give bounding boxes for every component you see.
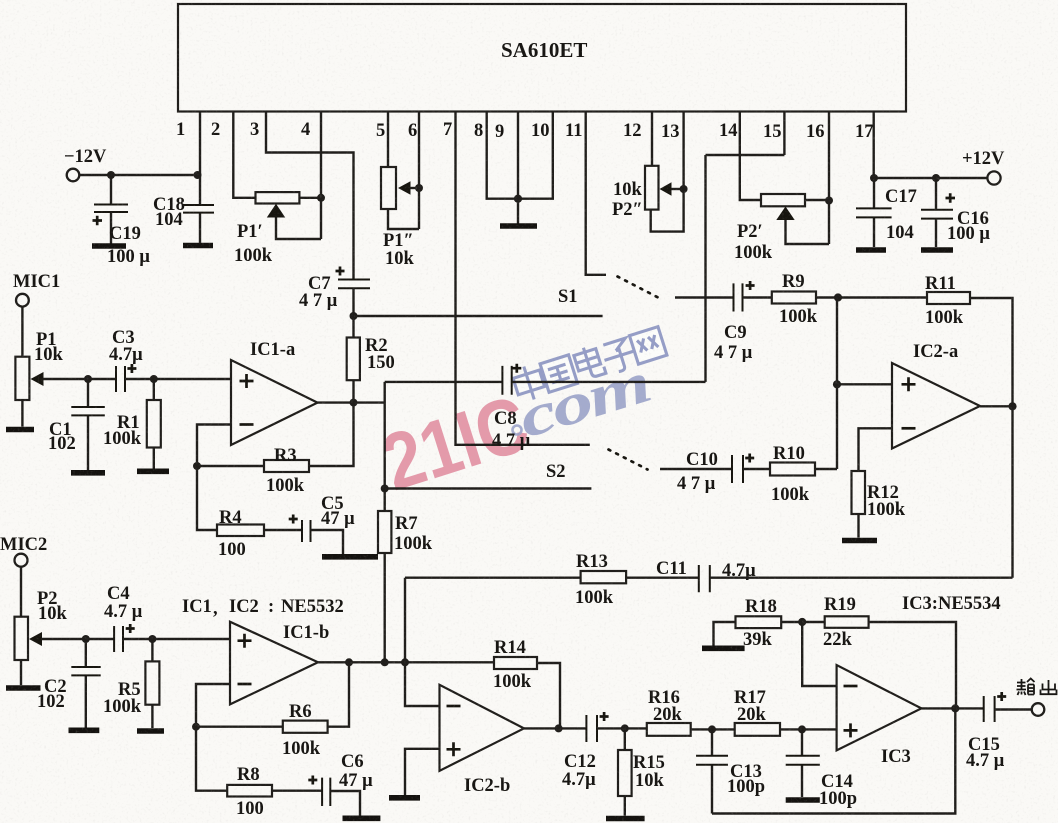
wire pin2 down to -12V rail [199, 112, 201, 176]
node C7/R2/S1 junction [350, 312, 358, 320]
node C2 tap [82, 635, 90, 643]
node R13 riser / IC2-b minus [401, 658, 409, 666]
wire pin11 down to S1 upper contact [586, 112, 606, 275]
resistor R7 [378, 489, 391, 663]
wire riser x405 to R13 row and IC2-b minus [405, 578, 440, 706]
potentiometer P1 [15, 357, 43, 427]
wire pin4a down-right to C7 [266, 112, 354, 280]
wire S2 pole to C10 [660, 468, 732, 470]
resistor R12 [852, 471, 866, 538]
wire joint row y155 to riser [706, 154, 785, 156]
node R5 tap [148, 635, 156, 643]
potentiometer P2 [15, 617, 43, 686]
capacitor C18 [183, 175, 214, 243]
potentiometer P2' [761, 194, 829, 244]
wire P2 wiper to C4 [41, 638, 114, 640]
op-amp IC3 [837, 665, 922, 750]
wire C10 to R10 [743, 468, 770, 470]
ground P2 [6, 685, 41, 691]
wire pin6 down through wiper node [418, 112, 420, 230]
node R3/R4 feedback [193, 462, 201, 470]
wire pin7 down and right to S2 top contact [456, 112, 590, 445]
wire C8 row left segment [385, 381, 503, 383]
wire S2 lower contact row [385, 487, 592, 489]
node junction on -12V rail at C19 [107, 171, 115, 179]
wire IC2-a output [980, 405, 1013, 407]
wire IC2-b plus input to ground [405, 749, 440, 795]
capacitor C12 [586, 712, 608, 742]
node R18/R19 [798, 618, 806, 626]
ground C5 [322, 554, 378, 560]
wire R11 right and down to IC2-a output [970, 298, 1013, 578]
wire IC1-b output row [318, 661, 494, 663]
wire R17 to IC3 plus input [780, 728, 837, 730]
wire C8 row right segment to riser x705 [512, 381, 706, 383]
wire IC2-a plus input [837, 383, 892, 385]
switch S2 blade (dashed) [609, 450, 648, 470]
node R16/R17/C13 [708, 725, 716, 733]
node pins 8-9-10 join [514, 195, 522, 203]
ground R5 [137, 728, 164, 734]
ground R15 [606, 816, 645, 822]
op-amp IC2-a [892, 363, 980, 449]
resistor R6 [196, 662, 349, 733]
node P1'' wiper on pin6 line [415, 184, 423, 192]
node junction on -12V rail at pin2 [194, 171, 202, 179]
resistor R2 [347, 316, 360, 403]
node R6/R8 feedback [192, 723, 200, 731]
capacitor C11 [699, 565, 710, 592]
wire riser x837 from R9 node down to R10 [836, 298, 838, 470]
wire R10 right up to plus node [815, 468, 837, 470]
ground R1 [137, 468, 169, 474]
resistor R14 [494, 657, 560, 728]
node IC2-a output [1008, 402, 1016, 410]
ground C17 [856, 247, 886, 253]
terminal MIC1 [16, 294, 29, 307]
node R17/C14/IC3 plus [798, 725, 806, 733]
wire C11 to IC2-a output riser [710, 577, 1013, 579]
wire S1 lower contact row [354, 315, 603, 317]
ground IC2-b plus [389, 795, 420, 801]
capacitor C2 [71, 639, 100, 728]
capacitor C17 [856, 178, 892, 247]
wire R16 to R17 [691, 728, 735, 730]
node P2' right on pin16 line [825, 197, 833, 205]
capacitor C14 [786, 729, 820, 797]
wire -12V rail [79, 174, 200, 176]
wire pin17 down to +12V rail [873, 112, 875, 179]
ground C2 [69, 727, 100, 733]
capacitor C13 [696, 729, 728, 813]
wire pin8 down to ground node [487, 112, 518, 199]
wire +12V rail [874, 177, 988, 179]
wire node down to IC3 minus input [802, 622, 836, 686]
capacitor C3 [116, 364, 136, 392]
resistor R1 [147, 379, 161, 469]
IC U1 SA610ET body [178, 4, 906, 112]
node IC3 output [951, 704, 959, 712]
node R9/R11/IC2-a plus riser [834, 293, 842, 301]
resistor R4 [197, 466, 302, 536]
wire pin15 down to joint row [783, 112, 785, 156]
potentiometer P2'' [645, 166, 684, 210]
node IC2-b output / R14 [555, 724, 563, 732]
capacitor C15 [984, 692, 1007, 722]
terminal MIC2 [15, 554, 28, 567]
watermark chinese char wang [629, 327, 667, 365]
capacitor C7 [336, 267, 371, 317]
wire C12 to R16 [597, 727, 647, 729]
node +12V rail at C16 [932, 174, 940, 182]
op-amp IC1-a [231, 360, 318, 445]
resistor R8 [196, 727, 322, 797]
capacitor C4 [114, 624, 135, 652]
capacitor C9 [734, 281, 755, 312]
capacitor C19 [93, 175, 129, 244]
resistor R19 [802, 616, 956, 708]
wire pin10 down to ground node [518, 112, 553, 199]
node R7 top / S2 row [381, 485, 389, 493]
watermark chinese char dian [572, 344, 605, 381]
resistor R9 [772, 292, 816, 304]
wire MIC1 to P1 [21, 307, 23, 357]
wire pin12 down to P2'' top [651, 112, 653, 166]
op-amp IC2-b [440, 685, 525, 771]
wire IC2-a minus input to R12 [859, 428, 893, 471]
resistor R10 [770, 463, 815, 476]
wire pin14 down to P2' left [740, 112, 761, 201]
resistor R16 [647, 723, 691, 736]
ground C16 [921, 247, 953, 253]
node +12V rail at C17 [870, 174, 878, 182]
ground R12 [842, 538, 877, 544]
capacitor C10 [732, 454, 754, 484]
ground C18 [183, 243, 213, 249]
capacitor C16 [921, 178, 955, 247]
wire bottom rail to IC3 output [712, 708, 955, 813]
wire C4 to IC1-b plus input [123, 638, 230, 640]
node C12/R15 [621, 724, 629, 732]
resistor R3 [197, 403, 354, 472]
resistor R11 [927, 292, 970, 304]
wire C9 to R9 [743, 296, 772, 298]
resistor R18 [714, 616, 803, 645]
node IC1-a output [350, 399, 358, 407]
wire pin4 down through P1' right node [320, 112, 322, 240]
node P2'' wiper on pin13 line [680, 185, 688, 193]
ground C14 [786, 797, 820, 803]
terminal +12V [987, 171, 1000, 184]
node R6 riser on output row [345, 658, 353, 666]
ground P1 [6, 427, 34, 433]
potentiometer P1'' [381, 167, 419, 229]
wire IC1-a minus input [197, 425, 231, 467]
label output (shu chu) [1017, 679, 1057, 696]
capacitor C1 [71, 379, 105, 470]
potentiometer P1' [256, 192, 322, 239]
wire C15 to output terminal [995, 708, 1032, 710]
terminal output [1032, 703, 1045, 716]
wire IC2-b output to C12 [524, 727, 586, 729]
resistor R17 [735, 723, 780, 736]
ground R18 [702, 645, 745, 651]
op-amp IC1-b [230, 622, 318, 705]
wire IC1-b minus input [196, 684, 230, 727]
resistor R15 [618, 728, 632, 815]
ground C6 [343, 815, 381, 821]
ground C19 [92, 243, 126, 249]
capacitor C6 [308, 776, 360, 816]
wire pin5 down to P1'' top [387, 112, 389, 168]
wire pin13 down with L to P2'' bottom [651, 112, 684, 232]
wire P1 wiper to C3 [43, 378, 117, 380]
resistor R13 [581, 571, 627, 583]
node R7 bottom on output row [381, 658, 389, 666]
wire C3 to IC1-a plus input [125, 378, 231, 380]
node IC2-a plus input [833, 380, 841, 388]
ground pins 8-10 [500, 223, 537, 229]
wire MIC2 to P2 [20, 567, 22, 617]
wire R13 row left segment [405, 577, 581, 579]
capacitor C5 [289, 515, 343, 555]
wire IC3 output to C15 [921, 707, 983, 709]
wire S1 pole to C9 [675, 296, 734, 298]
switch S1 blade (dashed) [618, 277, 662, 300]
wire R13 to C11 [626, 577, 699, 579]
resistor R5 [145, 639, 159, 728]
wire pin3 down to P1' left [233, 112, 255, 198]
node P1' right on pin4 line [317, 194, 325, 202]
wire riser x705 down to C8 row [704, 155, 706, 382]
wire riser x384.7 output to R7/S2 node [384, 382, 386, 489]
node C1 tap [84, 375, 92, 383]
watermark chinese char zhong [511, 327, 667, 404]
wire R9 to R11 [816, 296, 927, 298]
watermark chinese char guo [540, 355, 578, 393]
terminal -12V [67, 169, 80, 182]
node R1 tap [150, 375, 158, 383]
ground C1 [71, 470, 105, 476]
capacitor C8 [502, 364, 521, 395]
wire IC1-a output row [318, 401, 386, 403]
watermark chinese char zi [600, 337, 638, 375]
wire pin9 down to ground [517, 112, 519, 225]
watermark .com script [511, 350, 656, 451]
wire pin16 down through P2' right node [828, 112, 830, 245]
